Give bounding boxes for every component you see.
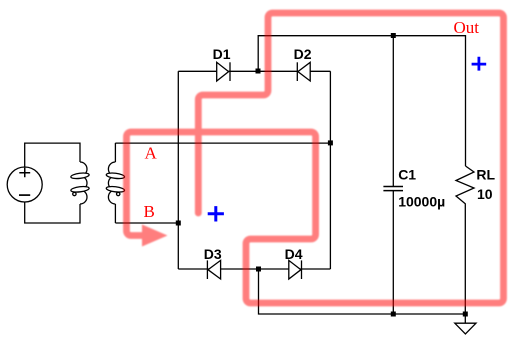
node junction C1 top bbox=[391, 33, 396, 38]
wire node A horizontal bbox=[115, 142, 330, 144]
svg-text:A: A bbox=[145, 144, 158, 163]
svg-text:10000µ: 10000µ bbox=[398, 194, 445, 210]
ground bbox=[455, 314, 476, 334]
capacitor C1 bbox=[383, 36, 403, 314]
svg-text:D4: D4 bbox=[285, 246, 303, 262]
node junction ground bbox=[463, 312, 468, 317]
transformer T1 secondary winding bbox=[106, 162, 125, 204]
diode D2 bbox=[297, 62, 310, 81]
plus polarity mark center bbox=[208, 206, 224, 221]
wire secondary top stub bbox=[114, 143, 116, 162]
svg-text:10: 10 bbox=[477, 186, 493, 202]
current path arrowhead bbox=[142, 225, 168, 247]
wire bridge bottom row bbox=[178, 268, 330, 270]
plus polarity mark near Out bbox=[472, 57, 487, 71]
svg-text:RL: RL bbox=[476, 166, 495, 182]
node junction C1 bottom bbox=[391, 312, 396, 317]
wire bottom output rail bbox=[259, 269, 466, 314]
wire source top lead bbox=[25, 143, 80, 167]
diode D1 bbox=[217, 62, 230, 81]
svg-text:D3: D3 bbox=[204, 246, 222, 262]
current path highlight bbox=[127, 13, 504, 303]
wire source bottom lead bbox=[25, 202, 80, 223]
wire bridge right vertical bbox=[329, 71, 331, 269]
svg-text:B: B bbox=[144, 202, 155, 221]
svg-text:D2: D2 bbox=[294, 46, 312, 62]
transformer T1 primary winding bbox=[71, 162, 90, 204]
wire secondary bottom stub bbox=[114, 204, 116, 223]
svg-text:C1: C1 bbox=[398, 166, 416, 182]
node junction B bbox=[176, 221, 181, 226]
node junction bottom center bbox=[256, 267, 261, 272]
svg-text:D1: D1 bbox=[213, 46, 231, 62]
resistor RL bbox=[456, 166, 474, 314]
diode D4 bbox=[289, 260, 302, 279]
svg-text:Out: Out bbox=[454, 18, 480, 37]
wire top output rail bbox=[258, 36, 465, 166]
AC source V1 bbox=[7, 167, 42, 202]
wire bridge top row bbox=[178, 70, 330, 72]
diode D3 bbox=[207, 260, 220, 279]
node junction A bbox=[328, 140, 333, 145]
wire bridge left vertical bbox=[177, 71, 179, 269]
wire node B horizontal bbox=[115, 222, 178, 224]
node junction top center bbox=[256, 69, 261, 74]
